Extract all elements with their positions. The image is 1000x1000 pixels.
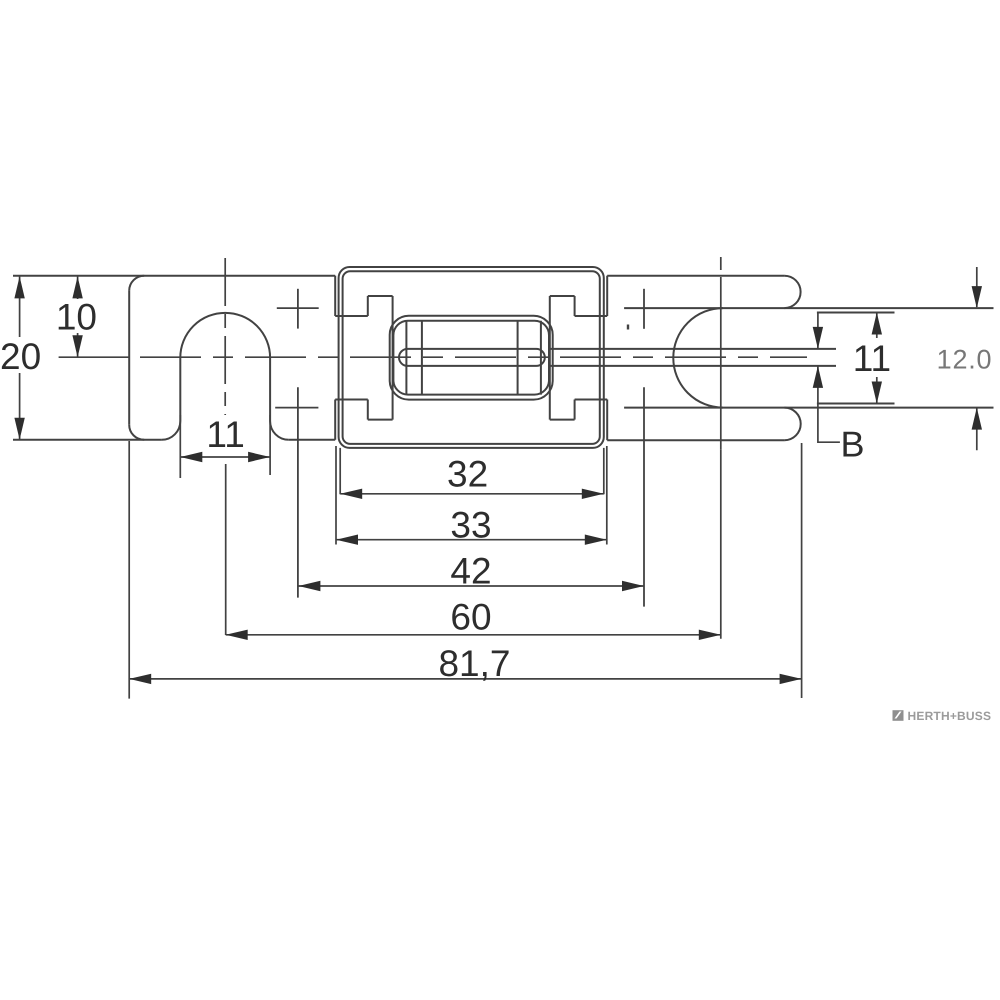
left blade top edge with extension line xyxy=(13,275,335,277)
svg-text:33: 33 xyxy=(450,505,491,546)
dim 60 left extension xyxy=(225,464,227,635)
left blade bottom edge right part xyxy=(289,439,335,441)
left blade bottom edge with extension line xyxy=(13,439,162,441)
right slot bottom line with cross arm and 12.0 extension xyxy=(624,407,993,409)
dim 33 extension lines xyxy=(336,446,607,545)
body lip left bottom line xyxy=(335,399,368,401)
left slot right leg xyxy=(269,358,271,421)
svg-text:12.0: 12.0 xyxy=(937,345,993,375)
arrow dim33 left xyxy=(336,535,358,545)
element middle slot xyxy=(399,349,545,366)
arrow dim11L right xyxy=(248,452,270,462)
strip bottom line xyxy=(551,365,837,367)
small tick mark xyxy=(627,325,629,330)
dim 10 line xyxy=(77,276,79,357)
body notch left vertical short top xyxy=(367,296,369,316)
dim B leader xyxy=(818,313,840,442)
cross right bottom vertical and 42 extension xyxy=(643,387,645,606)
left slot right fillet xyxy=(270,421,289,440)
arrow dim11R up xyxy=(872,313,882,335)
arrow dim42 left xyxy=(298,581,320,591)
svg-text:42: 42 xyxy=(450,551,491,592)
left slot arc xyxy=(180,313,270,358)
right blade bottom edge xyxy=(607,439,784,441)
dim 12.0 arrow shafts xyxy=(976,267,978,450)
element vertical mark 4 xyxy=(540,321,542,395)
dim 11 right extension bottom xyxy=(817,403,895,405)
body notch left top line xyxy=(368,295,393,297)
arrow dim11L left xyxy=(180,452,202,462)
left slot left fillet xyxy=(162,421,181,440)
dim 33 line xyxy=(336,539,607,541)
cross left bottom horizontal xyxy=(275,407,318,409)
dim 11 left extension lines xyxy=(180,415,270,478)
cross left bottom vertical and 42 extension xyxy=(297,387,299,597)
body lip left top line xyxy=(335,315,368,317)
right blade top edge xyxy=(607,275,784,277)
svg-text:B: B xyxy=(840,424,864,465)
dim 81.7 line xyxy=(129,678,801,680)
svg-text:20: 20 xyxy=(0,336,41,377)
horizontal centerline solid extension for dim 10 xyxy=(59,356,130,358)
cross left top horizontal xyxy=(277,307,319,309)
strip top line xyxy=(551,348,837,350)
svg-text:11: 11 xyxy=(853,338,891,379)
arrow dimB up xyxy=(813,366,823,388)
horizontal centerline dashed xyxy=(140,356,807,358)
element vertical mark 2 xyxy=(421,321,423,395)
body notch right long vertical xyxy=(549,296,551,420)
dim 11 left line xyxy=(180,456,270,458)
arrow dim12 down xyxy=(972,286,982,308)
arrow dim81.7 right xyxy=(780,674,802,684)
dim 11 right extension top xyxy=(817,312,895,314)
arrow dim33 right xyxy=(585,535,607,545)
body inner outline xyxy=(343,271,600,444)
vertical centerline fork xyxy=(720,257,722,450)
arrow dim20 up xyxy=(14,276,24,298)
arrow dim81.7 left xyxy=(129,674,151,684)
dim 42 line xyxy=(298,585,644,587)
svg-text:10: 10 xyxy=(56,297,97,338)
arrow dim32 right xyxy=(582,489,604,499)
svg-text:32: 32 xyxy=(447,454,488,495)
arrow dim10 up xyxy=(72,276,82,298)
dim 20 line xyxy=(19,276,21,439)
right slot top line with cross arm and 12.0 extension xyxy=(624,307,993,309)
body notch right vertical short bottom xyxy=(574,400,576,420)
body notch right top line xyxy=(550,295,575,297)
left blade top-left corner xyxy=(129,276,144,291)
body notch left long vertical xyxy=(392,296,394,420)
logo icon xyxy=(893,710,904,721)
body lip left vertical bottom xyxy=(334,400,336,440)
arrow dimB down xyxy=(813,327,823,349)
body lip right vertical bottom xyxy=(606,400,608,441)
arrow dim20 down xyxy=(14,418,24,440)
body notch right bottom line xyxy=(550,419,575,421)
arrow dim11R down xyxy=(872,382,882,404)
svg-text:HERTH+BUSS: HERTH+BUSS xyxy=(908,709,992,723)
element vertical mark 3 xyxy=(517,321,519,395)
window outline xyxy=(390,316,553,400)
body notch right vertical short top xyxy=(574,296,576,316)
right blade bottom prong cap xyxy=(784,408,800,441)
body outer outline xyxy=(339,267,604,448)
dim 32 extension lines xyxy=(340,448,604,494)
fork slot arc xyxy=(673,308,723,408)
left blade bottom-left corner xyxy=(129,425,144,440)
body notch left vertical short bottom xyxy=(367,400,369,420)
body lip right top line xyxy=(575,315,608,317)
cross left top vertical xyxy=(297,289,299,329)
dim 60 line xyxy=(226,634,721,636)
arrow dim12 up xyxy=(972,408,982,430)
arrow dim42 right xyxy=(622,581,644,591)
body lip right vertical top xyxy=(606,276,608,316)
cross right top vertical xyxy=(643,289,645,329)
svg-text:11: 11 xyxy=(206,414,244,455)
dim 60 right extension xyxy=(720,450,722,639)
body notch left bottom line xyxy=(368,419,393,421)
body lip left vertical top xyxy=(334,276,336,316)
vertical centerline left slot xyxy=(224,258,226,415)
right blade top prong cap xyxy=(784,276,800,308)
arrow dim60 right xyxy=(699,630,721,640)
dim 11 right line top segment xyxy=(876,313,878,404)
arrow dim32 left xyxy=(340,489,362,499)
svg-text:60: 60 xyxy=(450,597,491,638)
element outline xyxy=(393,321,549,395)
left slot left leg xyxy=(179,358,181,421)
element vertical mark 1 xyxy=(405,321,407,395)
svg-text:81,7: 81,7 xyxy=(438,643,510,684)
left blade left edge xyxy=(128,291,130,425)
dim 81.7 extension lines xyxy=(129,441,801,699)
body lip right bottom line xyxy=(575,399,608,401)
arrow dim60 left xyxy=(226,630,248,640)
dim 32 line xyxy=(340,493,604,495)
arrow dim10 down xyxy=(72,335,82,357)
